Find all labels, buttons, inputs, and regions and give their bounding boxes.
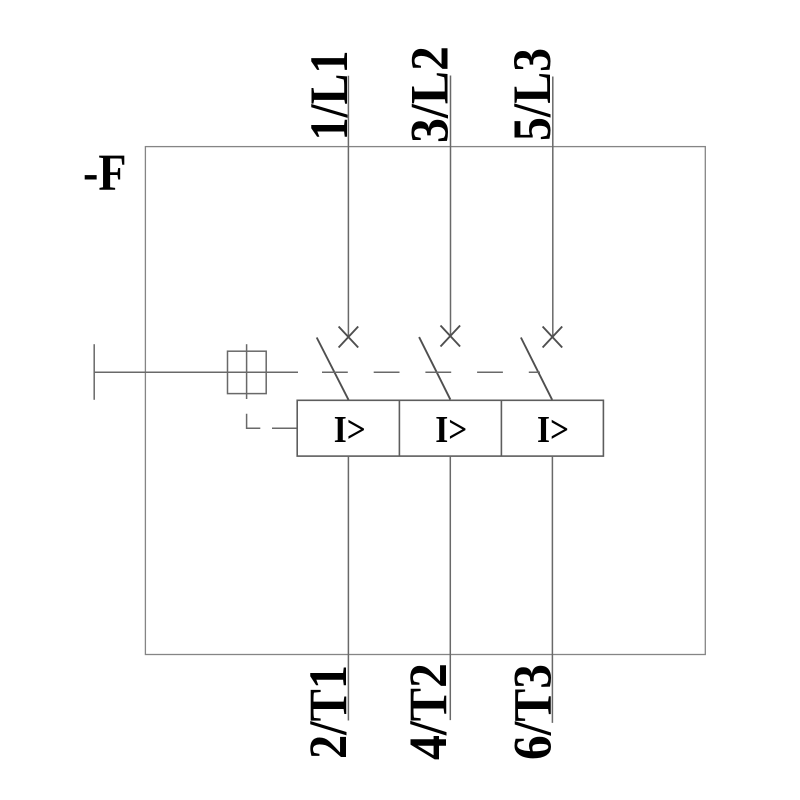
- contact cross pole 3: [543, 327, 563, 348]
- svg-text:-F: -F: [83, 145, 127, 202]
- trip linkage dashed L wire: [247, 414, 261, 429]
- actuator lever wire: [94, 371, 298, 373]
- trip linkage dash segment: [272, 427, 297, 429]
- svg-text:1/L1: 1/L1: [299, 51, 359, 141]
- svg-text:2/T1: 2/T1: [298, 665, 358, 759]
- svg-text:6/T3: 6/T3: [503, 664, 563, 760]
- breaker outline box -F: [145, 147, 705, 655]
- wire pin 6/T3 bottom: [551, 456, 553, 723]
- svg-text:I>: I>: [537, 409, 569, 451]
- mechanical linkage dashed wire: [322, 371, 540, 373]
- overload trip unit box: [297, 400, 603, 456]
- wire pin 5/L3 top: [552, 77, 554, 337]
- svg-text:4/T2: 4/T2: [398, 663, 458, 760]
- switch blade pole 3: [521, 338, 552, 400]
- wire pin 3/L2 top: [450, 76, 452, 337]
- pin label 5/L3: [502, 48, 562, 141]
- trip unit divider 1: [398, 400, 400, 456]
- wire pin 1/L1 top: [347, 76, 349, 337]
- switch blade pole 2: [419, 337, 450, 399]
- pin label 1/L1: [299, 51, 359, 141]
- trip unit divider 2: [500, 400, 502, 456]
- wire pin 4/T2 bottom: [449, 456, 451, 720]
- pin label 2/T1: [298, 665, 358, 759]
- actuator square vertical wire: [246, 344, 248, 399]
- switch blade pole 1: [317, 338, 349, 400]
- actuator square: [228, 351, 267, 393]
- pin label 3/L2: [400, 46, 460, 143]
- svg-text:I>: I>: [334, 409, 366, 451]
- contact cross pole 2: [441, 326, 461, 347]
- pin label 6/T3: [503, 664, 563, 760]
- svg-text:I>: I>: [435, 409, 467, 451]
- actuator terminal tick: [93, 344, 95, 400]
- pin label 4/T2: [398, 663, 458, 760]
- wire pin 2/T1 bottom: [347, 456, 349, 720]
- contact cross pole 1: [339, 327, 359, 348]
